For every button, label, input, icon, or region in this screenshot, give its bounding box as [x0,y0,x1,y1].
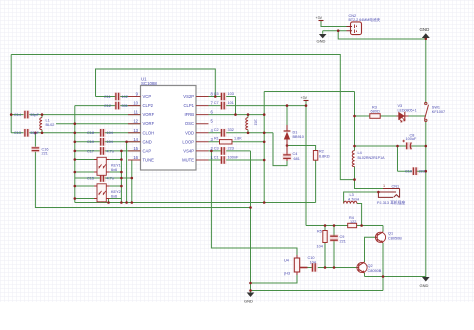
resistor R4 [348,216,357,228]
capacitor C16 [31,146,48,155]
svg-text:6x6: 6x6 [111,168,117,172]
svg-text:104: 104 [310,260,316,264]
junction dots key ladder right rails [107,141,133,204]
wire C8 row [355,145,426,147]
U1 pin numbers left 9-16 [133,92,138,161]
svg-text:680Ω: 680Ω [371,109,380,113]
capacitor C18 [87,129,113,137]
wire row pin14 / C19 [75,141,141,143]
wire row pin11 / C14 [11,114,140,116]
U1 pin stubs [128,97,209,161]
ground battery [317,34,327,44]
svg-text:6x6: 6x6 [111,195,117,199]
wire row pin13 / C13 C18 [11,132,140,134]
capacitor C9 [330,234,346,243]
capacitor C17 [87,147,114,155]
wire y276.5 emitter row [365,276,426,278]
svg-text:104: 104 [107,131,113,135]
svg-text:BB910: BB910 [293,135,304,139]
capacitor C3 [214,146,234,155]
svg-text:VORF: VORF [143,112,155,117]
svg-text:223: 223 [419,170,425,174]
capacitor C15 [87,174,114,182]
svg-text:Q2: Q2 [368,264,373,268]
svg-text:33pF: 33pF [30,113,39,117]
svg-text:332: 332 [228,128,234,132]
switch KEY2 [94,184,110,202]
wire rail x74.8 [74,106,76,203]
inductor L1 [40,118,55,130]
junction dots ground bus bottom [249,275,384,292]
svg-text:VS2P: VS2P [183,94,194,99]
op-amp U1 SC1088 IC body [141,77,197,171]
wire row pin15 / C17 [75,150,141,152]
power +3V mid [301,96,309,101]
svg-text:4.7u: 4.7u [107,176,114,180]
junction dots key ladder left rail [74,122,77,199]
junction dots amp supply row [324,224,363,227]
svg-text:100uF: 100uF [406,137,417,141]
LED V3 [397,104,417,122]
svg-text:+3V: +3V [316,16,323,20]
capacitor C6 223 [405,167,425,175]
wire +3V stem mid [305,101,307,106]
wire bead to CN1 [355,92,384,189]
junction dots antenna tank rows [10,113,43,134]
junction dots oscillator L2 [247,113,250,134]
transistor Q2 C8050B [357,262,382,273]
wire row pin8 / C5 [209,96,236,98]
wire y290.5 bottom [251,290,384,292]
svg-text:L4: L4 [358,151,362,155]
wire row between keys / C15 [75,177,132,179]
capacitor C8 electrolytic [402,133,417,149]
svg-text:10: 10 [133,101,138,106]
capacitor C12 [104,102,128,110]
svg-text:104: 104 [317,245,323,249]
svg-text:CLOH: CLOH [143,130,155,135]
switch KEY1 [94,157,110,175]
svg-text:KF1007: KF1007 [432,110,445,114]
junction dots mid rail x264 [263,113,266,161]
wire U4 bottom to gnd rail [251,272,298,283]
svg-text:GND: GND [317,39,326,44]
svg-text:BL02: BL02 [46,123,55,127]
svg-text:4.7u: 4.7u [107,149,114,153]
wire battery +3V [321,21,347,27]
svg-text:C13: C13 [14,131,21,135]
svg-text:KEY2: KEY2 [111,190,121,194]
junction dots bottom row [249,201,265,209]
power +3V battery [316,16,324,20]
svg-text:GND: GND [143,139,152,144]
svg-text:C18: C18 [87,131,94,135]
svg-text:PJ-313 耳机插座: PJ-313 耳机插座 [377,200,405,205]
svg-text:GND: GND [420,27,430,32]
resistor R5 [317,229,328,248]
svg-text:VORF: VORF [143,121,155,126]
svg-text:C3: C3 [214,146,219,150]
wire KEY2 pins [75,186,122,203]
wire y91.5 to right rail [264,91,354,93]
switch SW1 [425,102,446,121]
ground bottom right [420,277,430,288]
wire y202.5 row [75,202,316,204]
wire 223 row with riser [398,146,426,171]
wire x211.4 to U4 top [211,151,297,258]
svg-text:1: 1 [383,184,385,188]
wire top small loop x95.5 [96,69,216,97]
svg-text:C19: C19 [87,140,94,144]
svg-text:BT2-2 64MM电池夹: BT2-2 64MM电池夹 [349,17,381,22]
ground net flag top right [420,27,430,38]
svg-text:MUTE: MUTE [182,158,194,163]
svg-text:SC1088: SC1088 [141,81,157,86]
wire battery gnd row [323,31,347,34]
svg-text:V3: V3 [398,104,403,108]
svg-text:LOOP: LOOP [182,139,194,144]
wire varactor branch D1 C4 [273,106,287,166]
wire row pin1 / C1 [209,159,265,161]
svg-text:CN1: CN1 [392,184,400,188]
svg-text:GND: GND [244,299,253,304]
svg-text:223: 223 [228,146,234,150]
capacitor C14 [14,111,40,119]
wire row pin3 / R1 [209,141,265,143]
svg-text:C1: C1 [214,156,219,160]
svg-text:C12: C12 [104,104,111,108]
U1 pin names right [182,94,195,163]
wire R3 LED row [355,115,426,117]
ground bottom left [244,293,254,304]
svg-text:TUNE: TUNE [143,158,155,163]
capacitor C10 [308,256,318,272]
wire y225.5 supply row [306,225,383,227]
svg-text:C11: C11 [104,95,111,99]
svg-text:R5: R5 [317,229,322,233]
svg-text:4.7mH: 4.7mH [348,197,359,201]
svg-text:C17: C17 [87,149,94,153]
U1 pin names left [143,94,155,163]
svg-text:Q1: Q1 [388,232,393,236]
svg-text:C14: C14 [14,113,21,117]
capacitor C11 [104,93,128,101]
wire drop x235.5 [235,97,237,115]
junction dots pin8 loop [214,95,237,116]
wire drop x126.6 [126,142,128,203]
svg-text:16: 16 [133,155,138,160]
wire rail x250.5 to gnd [250,151,252,293]
inductor L2 [246,118,258,130]
svg-text:BL02RN2R1P1A: BL02RN2R1P1A [358,156,386,160]
wire Q1 emitter drop [382,243,384,291]
svg-text:U4: U4 [284,259,289,263]
diode D1 BB910 varactor [284,125,304,146]
svg-text:C7: C7 [214,101,219,105]
svg-text:101: 101 [228,101,234,105]
svg-text:C4: C4 [293,152,298,156]
wire C16 branch to y207.5 [35,133,250,208]
capacitor C5 [214,92,234,101]
switch KEY2 label [111,190,121,199]
svg-text:R1: R1 [214,136,219,140]
resistor R2 [313,150,329,161]
svg-text:KEY1: KEY1 [111,164,121,168]
transistor Q1 C8050B [375,232,402,243]
svg-text:CAP: CAP [143,148,152,153]
wire L2 stubs [247,115,249,133]
junction dots right rails [353,115,427,194]
svg-text:C2: C2 [214,128,219,132]
wire R5 stubs [324,226,326,268]
svg-text:LED0805+1: LED0805+1 [398,109,417,113]
svg-text:C10: C10 [405,170,412,174]
wire row pin4 / C2 [209,132,274,134]
connector CN2 battery [347,14,381,35]
wire R2 branch [287,146,316,203]
ferrite bead L4 [352,151,385,167]
wire L3 connections [344,192,379,226]
wire drop x121.4 [120,151,122,203]
resistor R3 [370,105,380,118]
svg-text:C5: C5 [214,92,219,96]
svg-text:104: 104 [107,140,113,144]
capacitor C19 [87,138,113,146]
svg-text:102: 102 [254,119,258,125]
connector CN1 PJ-313 jack [377,184,405,205]
wire Q2 collector to Q1 base [365,237,376,262]
capacitor C1 [214,156,239,164]
svg-text:CLP2: CLP2 [143,103,154,108]
svg-text:IFRB: IFRB [184,112,194,117]
wire Q2 emitter stub [364,273,366,277]
wire row pin9 / C11 [96,96,141,98]
svg-text:15: 15 [133,146,138,151]
svg-text:SW1: SW1 [432,106,440,110]
svg-text:221: 221 [340,240,346,244]
wire rail x306 down [305,106,307,226]
wire audio C10 row [308,267,357,269]
wire battery to GND flag [338,31,426,39]
wire row pin2 / C3 [209,150,251,152]
wire right rail x425.8 [425,39,427,277]
U1 pin numbers right 8-1 [211,92,214,161]
wire KEY1 pins [75,160,122,173]
junction dots varactor and supply [210,104,307,152]
svg-text:D1: D1 [293,131,298,135]
svg-text:102: 102 [122,95,128,99]
svg-text:L1: L1 [46,119,50,123]
wire C9 stubs [333,226,335,268]
svg-text:C15: C15 [87,176,94,180]
svg-text:100nF: 100nF [228,156,239,160]
svg-text:+3V: +3V [301,96,308,100]
junction dots battery net [337,29,427,40]
wire pin16 TUNE branch [132,160,141,203]
wire big top loop to bead rail [11,55,354,180]
svg-text:C8050B: C8050B [388,236,402,240]
svg-text:C9: C9 [340,235,345,239]
svg-text:122: 122 [350,220,356,224]
wire row pin12 [56,123,141,125]
svg-text:VS4P: VS4P [183,148,194,153]
svg-text:C8050B: C8050B [368,269,382,273]
capacitor C4 [283,146,300,162]
svg-text:221: 221 [42,152,48,156]
wire row pin6 [209,114,265,116]
svg-text:13: 13 [133,128,138,133]
capacitor C13 [14,129,40,137]
svg-text:14: 14 [133,137,138,142]
svg-text:681: 681 [294,157,300,161]
capacitor C7 [214,101,234,110]
capacitor C2 [214,128,234,137]
inductor L3 [344,193,360,203]
svg-text:R2: R2 [319,150,324,154]
junction dots audio input row [324,266,336,269]
svg-text:VCP: VCP [143,94,152,99]
switch KEY1 label [111,164,121,173]
svg-text:331: 331 [122,104,128,108]
microphone U4 [284,255,308,276]
resistor R1 [214,136,242,144]
svg-text:VDD: VDD [185,130,194,135]
svg-text:(H3: (H3 [284,272,290,276]
wire left rail x22 [10,55,12,133]
wire Q1 collector stub [382,226,384,232]
svg-text:CLP1: CLP1 [184,103,195,108]
wire row pin7 / C7 to +3V [209,105,307,107]
wire L1 stubs [41,115,43,133]
svg-text:OSC: OSC [185,121,194,126]
svg-text:12: 12 [133,119,138,124]
svg-text:103: 103 [228,92,234,96]
svg-text:11: 11 [134,110,139,115]
wire row pin10 / C12 [75,105,141,107]
svg-text:6.8KΩ: 6.8KΩ [319,154,330,158]
svg-text:33pF: 33pF [30,131,39,135]
svg-text:GND: GND [420,283,429,288]
wire rail x264.2 [263,92,265,203]
svg-text:1.8K: 1.8K [234,136,242,140]
